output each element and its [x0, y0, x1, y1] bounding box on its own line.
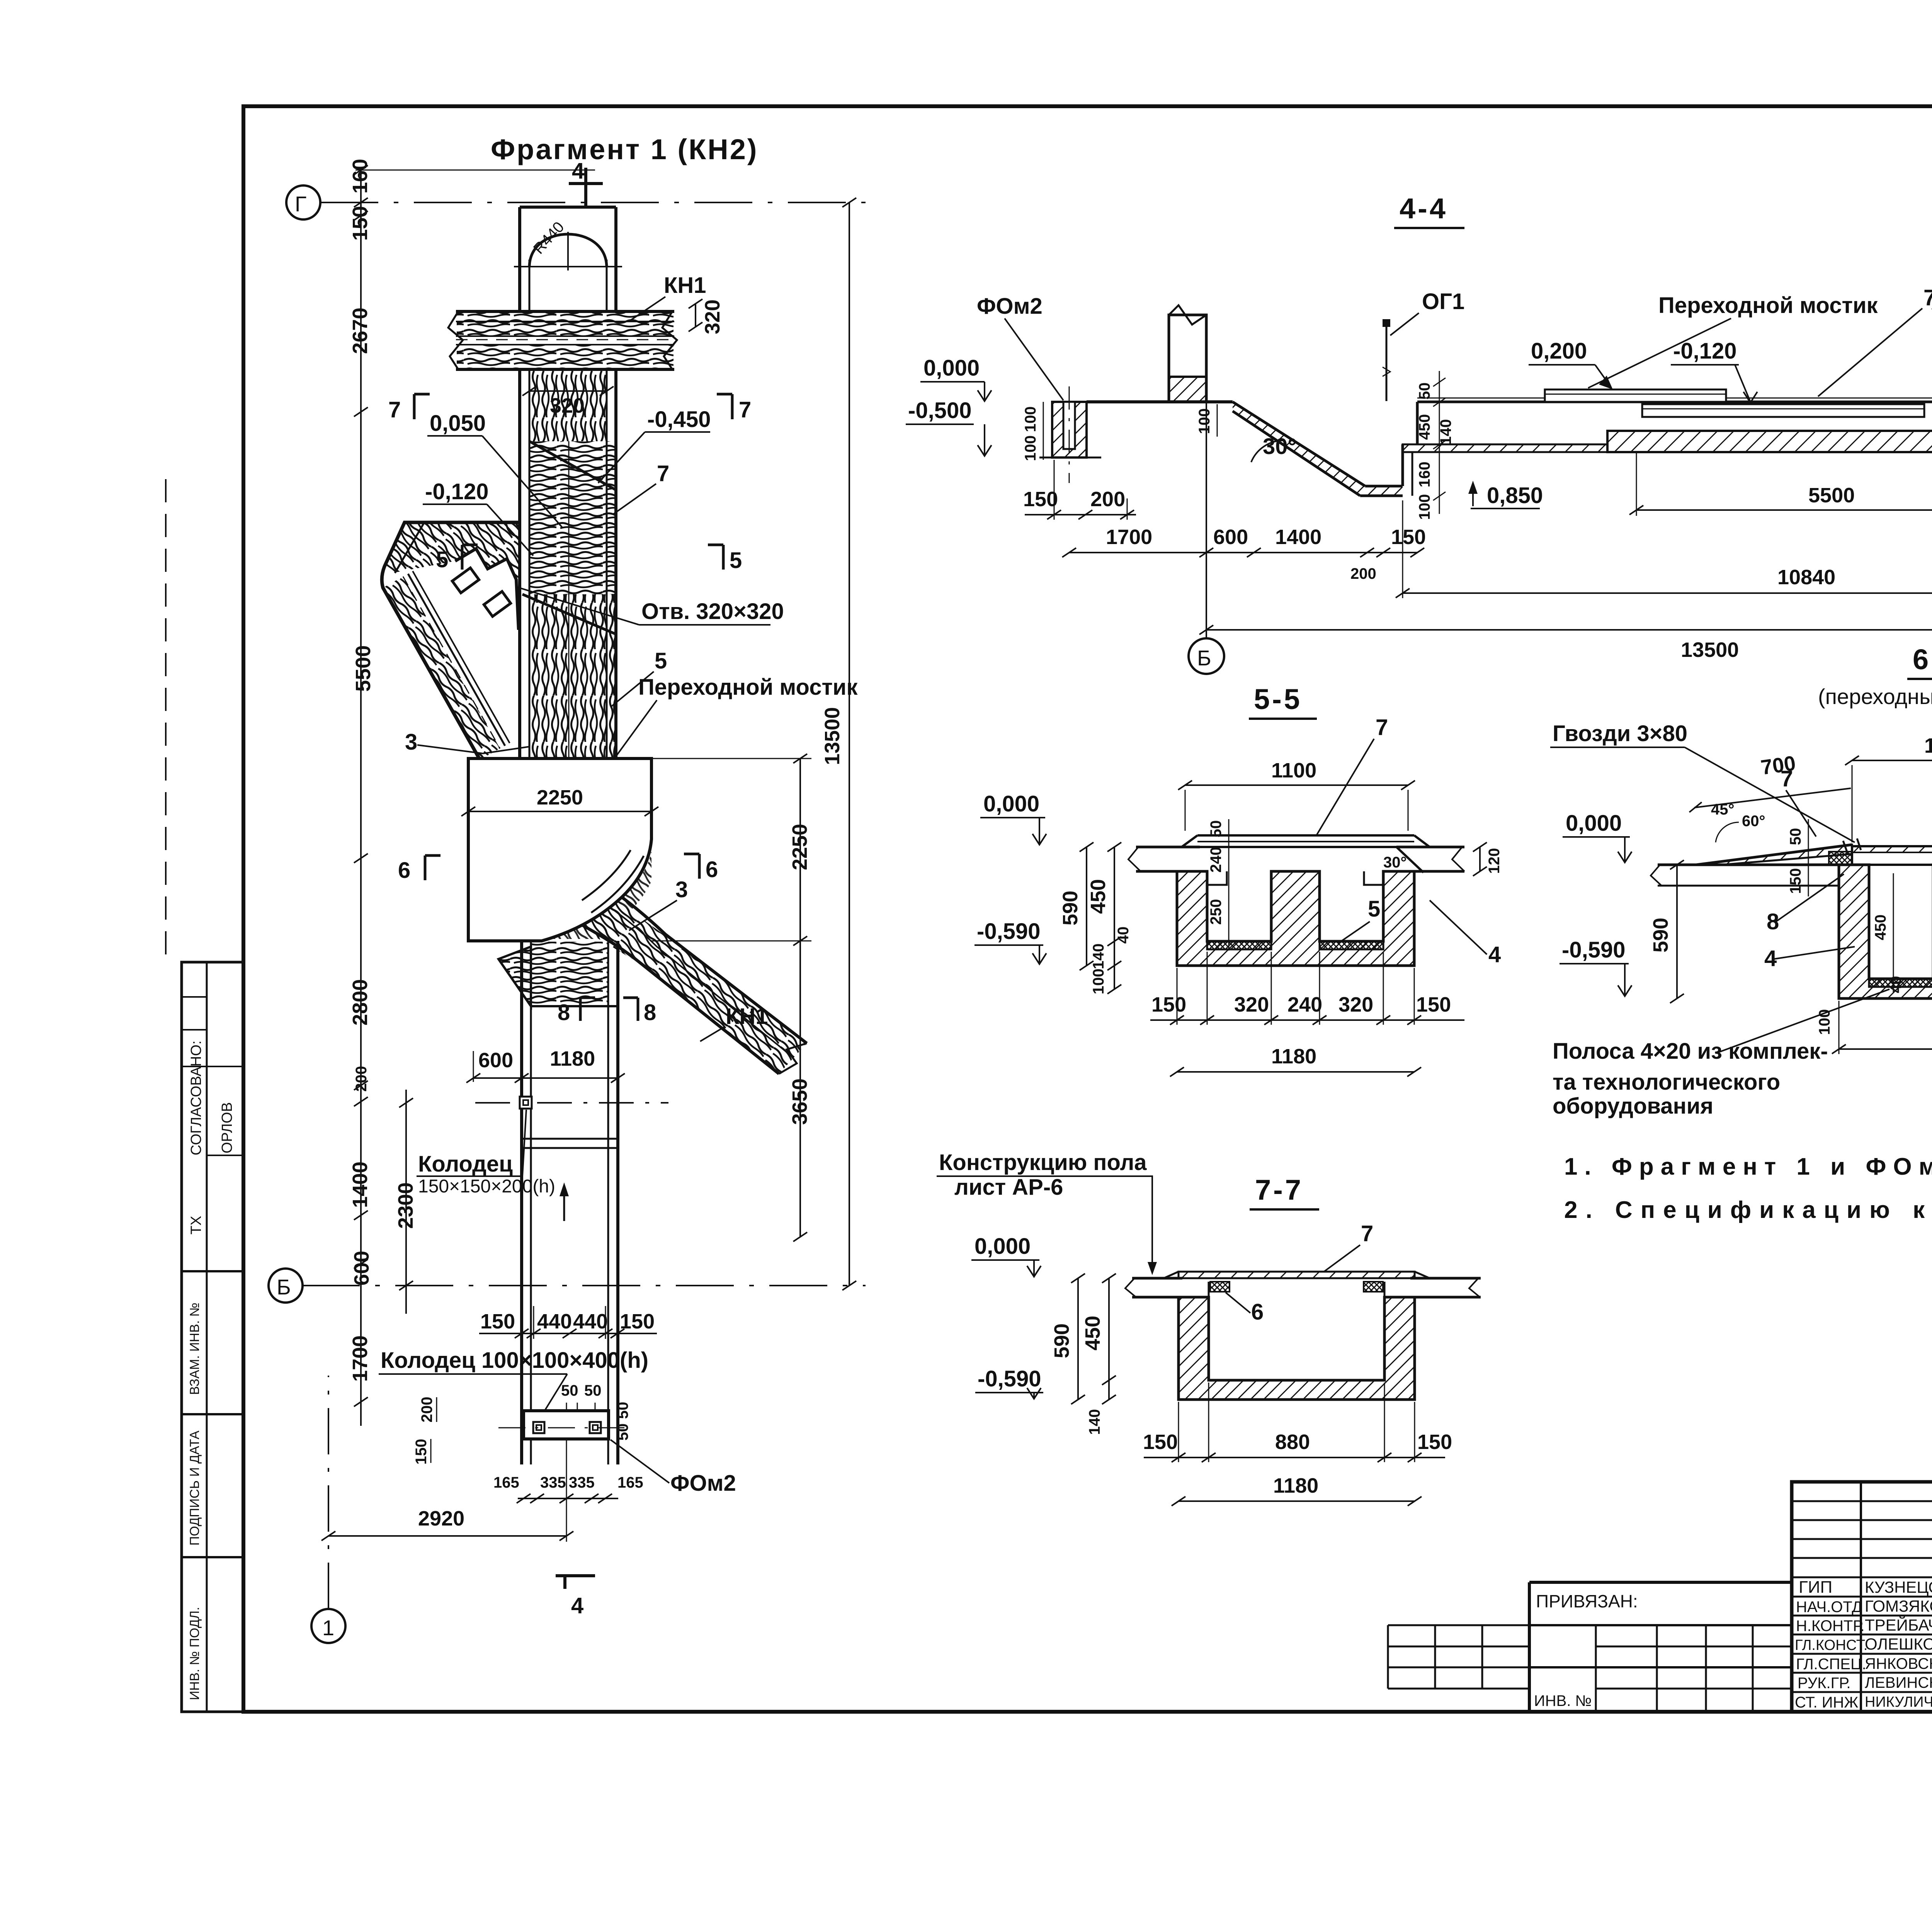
nails marks	[1843, 841, 1848, 854]
hole 1 (otv 320x320)	[452, 568, 479, 593]
svg-text:1400: 1400	[349, 1162, 372, 1208]
svg-text:4-4: 4-4	[1400, 192, 1448, 224]
svg-text:4: 4	[572, 158, 584, 184]
svg-text:440: 440	[573, 1310, 608, 1333]
svg-text:Фрагмент 1 (КН2): Фрагмент 1 (КН2)	[491, 133, 759, 165]
svg-text:600: 600	[1213, 526, 1248, 549]
dim row 1700/600/1400/200/150 + 150/160	[1069, 552, 1417, 553]
left ramp	[1696, 845, 1852, 865]
drawing frame	[243, 106, 1932, 1712]
svg-text:СТ. ИНЖ.: СТ. ИНЖ.	[1795, 1694, 1862, 1711]
dim 2250 inside plate	[468, 811, 651, 812]
svg-text:150: 150	[349, 206, 372, 241]
kolodec axis line and box	[475, 1102, 668, 1104]
svg-text:ИНВ. № ПОДЛ.: ИНВ. № ПОДЛ.	[187, 1607, 202, 1700]
svg-text:ГЛ.КОНСТ.: ГЛ.КОНСТ.	[1795, 1637, 1867, 1653]
svg-text:0,200: 0,200	[1531, 338, 1587, 364]
svg-text:7: 7	[1361, 1221, 1373, 1246]
svg-text:7: 7	[388, 397, 401, 422]
svg-text:150: 150	[1151, 993, 1186, 1016]
svg-text:150: 150	[1787, 868, 1804, 894]
svg-text:ОРЛОВ: ОРЛОВ	[219, 1102, 235, 1153]
svg-text:250: 250	[1207, 899, 1225, 925]
svg-text:6: 6	[1251, 1299, 1264, 1325]
svg-text:1180: 1180	[1271, 1045, 1316, 1068]
svg-text:ЛЕВИНСКАЯ: ЛЕВИНСКАЯ	[1865, 1674, 1932, 1691]
svg-text:335: 335	[540, 1474, 566, 1491]
diagonal channel upper band	[384, 522, 520, 580]
floor slab right	[1396, 846, 1464, 849]
svg-text:1: 1	[322, 1616, 334, 1640]
inner dims 50/240/250	[1228, 819, 1230, 951]
svg-text:100: 100	[1090, 969, 1107, 995]
axis 1 line	[328, 1376, 329, 1609]
svg-text:2670: 2670	[349, 308, 372, 354]
concrete U	[1179, 1297, 1415, 1400]
dim 320 right of KH1	[695, 304, 696, 327]
svg-text:7: 7	[1781, 766, 1793, 791]
svg-text:165: 165	[493, 1474, 519, 1491]
svg-text:0,050: 0,050	[430, 411, 486, 436]
dim 150 440 440 150 under B axis	[479, 1333, 657, 1334]
inner 450/40 dims	[1893, 873, 1894, 993]
axis Б line	[302, 1285, 866, 1286]
FOm2 block	[524, 1411, 609, 1439]
svg-text:50: 50	[614, 1402, 631, 1419]
svg-text:5: 5	[436, 547, 448, 572]
svg-text:450: 450	[1872, 915, 1889, 940]
svg-text:ФОм2: ФОм2	[670, 1471, 736, 1496]
svg-text:ОГ1: ОГ1	[1422, 289, 1464, 314]
axis Г line	[320, 202, 866, 203]
svg-text:ГОМЗЯКОВ: ГОМЗЯКОВ	[1865, 1597, 1932, 1615]
left columns grid	[1860, 1482, 1862, 1712]
svg-text:13500: 13500	[821, 707, 844, 765]
svg-text:5: 5	[655, 648, 667, 673]
svg-text:НИКУЛИЧЕВА: НИКУЛИЧЕВА	[1865, 1694, 1932, 1710]
svg-text:160: 160	[349, 159, 372, 194]
svg-text:2920: 2920	[418, 1507, 464, 1530]
svg-text:ИНВ. №: ИНВ. №	[1534, 1692, 1592, 1709]
svg-text:150: 150	[1143, 1430, 1178, 1454]
section cut 4 bottom	[556, 1574, 595, 1577]
svg-text:5: 5	[1368, 896, 1380, 922]
section mark 6 right	[698, 854, 701, 879]
svg-text:-0,120: -0,120	[425, 479, 488, 504]
hole 2	[484, 592, 510, 617]
svg-text:40: 40	[1115, 927, 1132, 944]
dim 50/150 inner left	[1808, 819, 1809, 896]
svg-text:ЯНКОВСКИЙ: ЯНКОВСКИЙ	[1865, 1655, 1932, 1672]
svg-text:8: 8	[1767, 909, 1779, 934]
svg-text:2250: 2250	[537, 786, 583, 809]
svg-text:200: 200	[1090, 488, 1125, 511]
small 100 dims near dip start	[1217, 404, 1218, 437]
svg-text:320: 320	[1234, 993, 1269, 1016]
svg-text:ВЗАМ. ИНВ. №: ВЗАМ. ИНВ. №	[187, 1303, 202, 1395]
svg-text:8: 8	[558, 1000, 570, 1025]
FOm2 foundation cross-section	[1052, 402, 1087, 457]
svg-text:100: 100	[1416, 494, 1433, 520]
svg-text:0,000: 0,000	[983, 791, 1039, 816]
axis Г circle	[286, 185, 320, 219]
floor line right with planks	[1417, 401, 1932, 403]
svg-text:590: 590	[1059, 891, 1082, 925]
svg-text:Переходной мостик: Переходной мостик	[638, 675, 858, 700]
bottom chain 165 335 335 165	[518, 1498, 618, 1499]
svg-text:320: 320	[701, 299, 724, 334]
svg-text:1180: 1180	[1273, 1474, 1318, 1497]
right chain 2250/3650	[799, 759, 801, 1237]
svg-text:30°: 30°	[1383, 854, 1407, 871]
svg-text:140: 140	[1090, 944, 1107, 969]
svg-text:6: 6	[706, 857, 718, 882]
stepped cut line near holes	[455, 549, 519, 630]
section mark 5 right	[722, 545, 725, 570]
svg-text:30°: 30°	[1263, 434, 1297, 459]
diag outer contour	[382, 522, 520, 760]
bridge plate 2250	[468, 759, 651, 941]
svg-text:240: 240	[1207, 847, 1225, 873]
cover plank	[1197, 834, 1414, 837]
svg-text:2300: 2300	[394, 1182, 417, 1229]
svg-text:100: 100	[1022, 406, 1039, 432]
svg-text:7-7: 7-7	[1255, 1174, 1303, 1206]
привязан table	[1529, 1582, 1792, 1712]
main channel strip top rectangle	[520, 206, 616, 209]
svg-text:ФОм2: ФОм2	[977, 294, 1043, 319]
svg-text:450: 450	[1081, 1316, 1104, 1350]
svg-text:320: 320	[1338, 993, 1373, 1016]
svg-text:6: 6	[398, 858, 410, 883]
svg-text:150×150×200(h): 150×150×200(h)	[418, 1176, 555, 1197]
svg-text:45°: 45°	[1711, 801, 1735, 818]
svg-text:-0,590: -0,590	[978, 1366, 1041, 1391]
svg-text:600: 600	[478, 1049, 513, 1072]
cover plank	[1179, 1272, 1415, 1278]
notes	[1564, 1153, 1932, 1223]
svg-text:-0,120: -0,120	[1673, 338, 1736, 364]
svg-text:165: 165	[617, 1474, 643, 1491]
svg-text:1. Фрагмент 1 и ФОм2 замаркиро: 1. Фрагмент 1 и ФОм2 замаркированы на ли…	[1564, 1153, 1932, 1180]
30 deg wedge right	[1396, 847, 1423, 872]
svg-text:13500: 13500	[1681, 638, 1739, 662]
svg-text:335: 335	[569, 1474, 595, 1491]
svg-text:140: 140	[1086, 1409, 1103, 1435]
svg-text:Гвозди 3×80: Гвозди 3×80	[1553, 721, 1687, 746]
floor line left	[1087, 400, 1233, 403]
center plank	[1852, 846, 1932, 865]
wood block below plate	[531, 942, 608, 1006]
svg-text:КН1: КН1	[664, 273, 706, 298]
section mark 7 right	[731, 394, 734, 419]
left dim chain 1	[360, 170, 362, 1426]
svg-text:1100: 1100	[1271, 759, 1316, 782]
svg-text:РУК.ГР.: РУК.ГР.	[1798, 1675, 1851, 1692]
dim 2920	[328, 1535, 566, 1537]
right chain 13500	[849, 202, 850, 1286]
svg-text:6-6: 6-6	[1913, 643, 1932, 675]
svg-text:Б: Б	[277, 1275, 291, 1299]
axis B wall	[1169, 315, 1206, 402]
lines across strip	[522, 1138, 618, 1140]
svg-text:Отв. 320×320: Отв. 320×320	[641, 599, 784, 624]
120 dim right	[1479, 847, 1481, 871]
svg-text:1000: 1000	[1924, 734, 1932, 757]
raised plank 0,200	[1545, 389, 1726, 402]
svg-text:100: 100	[1022, 435, 1039, 461]
svg-text:ОЛЕШКО: ОЛЕШКО	[1865, 1635, 1932, 1653]
svg-text:3: 3	[675, 877, 688, 902]
svg-text:450: 450	[1087, 879, 1110, 914]
svg-text:590: 590	[1649, 918, 1672, 952]
svg-text:600: 600	[350, 1251, 373, 1286]
svg-text:1400: 1400	[1275, 526, 1321, 549]
svg-text:150: 150	[413, 1439, 430, 1465]
svg-text:Н.КОНТР.: Н.КОНТР.	[1796, 1617, 1865, 1634]
svg-text:3: 3	[405, 730, 417, 755]
svg-text:КН1: КН1	[726, 1004, 768, 1029]
svg-text:10840: 10840	[1777, 566, 1835, 589]
svg-text:7: 7	[739, 397, 751, 422]
svg-text:150: 150	[480, 1310, 515, 1333]
dims 600 1180	[473, 1077, 618, 1079]
svg-text:ГИП: ГИП	[1799, 1578, 1832, 1597]
left outer stamp strip	[166, 479, 243, 1712]
arch R440	[529, 234, 607, 267]
svg-text:0,850: 0,850	[1487, 483, 1543, 508]
svg-text:50: 50	[1207, 820, 1225, 838]
svg-text:-0,590: -0,590	[977, 919, 1040, 944]
svg-text:Переходной мостик: Переходной мостик	[1658, 293, 1878, 318]
dim row 10840	[1403, 592, 1932, 594]
title block	[1792, 1482, 1932, 1712]
left dims 590/450/140	[1086, 847, 1087, 966]
svg-text:7: 7	[1376, 715, 1388, 740]
svg-text:200: 200	[1350, 565, 1376, 582]
dim row 5500/3000	[1636, 509, 1932, 511]
floor slab right	[1410, 1277, 1481, 1280]
svg-text:2250: 2250	[788, 824, 811, 870]
section mark 8 right	[637, 998, 639, 1021]
svg-text:ТРЕЙБАЧ: ТРЕЙБАЧ	[1865, 1616, 1932, 1634]
svg-text:-0,450: -0,450	[647, 407, 711, 432]
svg-text:лист АР-6: лист АР-6	[954, 1175, 1063, 1200]
svg-text:1180: 1180	[550, 1047, 595, 1070]
ground line	[1658, 864, 1839, 866]
lining plates in voids	[1207, 941, 1271, 949]
dim row 13500	[1206, 629, 1932, 631]
diag inner double wall lines	[395, 522, 424, 573]
svg-text:Б: Б	[1197, 646, 1211, 670]
svg-text:590: 590	[1050, 1323, 1073, 1358]
strip below plate	[520, 941, 523, 1464]
svg-text:ПРИВЯЗАН:: ПРИВЯЗАН:	[1536, 1591, 1638, 1611]
axis 1 circle	[311, 1609, 345, 1643]
svg-text:ПОДПИСЬ И ДАТА: ПОДПИСЬ И ДАТА	[187, 1430, 202, 1546]
axis verticals + circles	[1206, 402, 1207, 638]
bottom dim chain	[1150, 1019, 1464, 1021]
svg-text:150: 150	[1391, 526, 1426, 549]
svg-text:Колодец: Колодец	[418, 1151, 513, 1177]
svg-text:60°: 60°	[1742, 813, 1765, 830]
svg-text:8: 8	[644, 1000, 656, 1025]
left dims 590/450/140	[1077, 1278, 1079, 1400]
svg-text:-0,500: -0,500	[908, 398, 971, 423]
svg-text:160: 160	[1416, 462, 1433, 488]
svg-text:150: 150	[1416, 993, 1451, 1016]
dim 1180	[1177, 1071, 1414, 1073]
svg-text:1700: 1700	[349, 1335, 372, 1382]
svg-text:Колодец 100×100×400(h): Колодец 100×100×400(h)	[381, 1348, 648, 1373]
channel dip	[1233, 402, 1403, 496]
svg-text:(переходный мостик): (переходный мостик)	[1818, 684, 1932, 709]
svg-text:50: 50	[561, 1382, 578, 1399]
svg-text:Г: Г	[295, 192, 306, 216]
svg-text:5500: 5500	[1808, 484, 1855, 507]
svg-text:150: 150	[1023, 488, 1058, 511]
svg-text:ТХ: ТХ	[188, 1216, 204, 1235]
svg-text:7: 7	[1923, 285, 1932, 310]
svg-text:оборудования: оборудования	[1553, 1094, 1713, 1119]
under-slab thick part	[1607, 431, 1932, 452]
cross-hatch pads	[1829, 852, 1852, 865]
pads	[1210, 1282, 1230, 1292]
svg-text:5: 5	[730, 548, 742, 573]
svg-text:150: 150	[620, 1310, 655, 1333]
svg-text:Полоса 4×20 из комплек-: Полоса 4×20 из комплек-	[1553, 1039, 1828, 1064]
strip walls mid	[518, 369, 521, 759]
left extension grid	[1388, 1625, 1529, 1689]
svg-text:50: 50	[1416, 383, 1433, 400]
svg-text:140: 140	[1437, 419, 1454, 445]
svg-text:ГЛ.СПЕЦ.: ГЛ.СПЕЦ.	[1796, 1656, 1866, 1673]
svg-text:0,000: 0,000	[1566, 811, 1622, 836]
svg-text:2800: 2800	[349, 979, 372, 1026]
floor slab left	[1132, 1277, 1182, 1280]
svg-text:2. Спецификацию канала КН2 см.: 2. Спецификацию канала КН2 см. на листе …	[1564, 1197, 1932, 1223]
svg-text:5-5: 5-5	[1254, 683, 1302, 715]
small ledges under cover	[1207, 871, 1227, 885]
svg-text:200: 200	[418, 1397, 435, 1423]
svg-text:450: 450	[1416, 414, 1433, 440]
svg-text:та технологического: та технологического	[1553, 1070, 1780, 1095]
svg-text:50: 50	[1787, 828, 1804, 845]
flow arrow	[563, 1187, 565, 1221]
dim 1180	[1179, 1500, 1415, 1502]
svg-text:40: 40	[1888, 976, 1905, 993]
svg-text:5500: 5500	[352, 645, 375, 692]
concrete body	[1839, 865, 1932, 998]
floor slab left	[1136, 846, 1200, 849]
svg-text:120: 120	[1486, 848, 1503, 874]
svg-text:50: 50	[584, 1382, 602, 1399]
svg-text:440: 440	[537, 1310, 572, 1333]
bottom dims 150/880/150	[1144, 1457, 1445, 1458]
concrete U-channel body	[1177, 871, 1414, 966]
svg-text:7: 7	[657, 461, 669, 486]
under-slab thin part	[1403, 444, 1607, 452]
svg-text:150: 150	[1417, 1430, 1452, 1454]
svg-text:3650: 3650	[788, 1078, 811, 1125]
dim 1180	[1839, 1048, 1932, 1050]
axis Б circle	[269, 1269, 303, 1303]
left chain 2 (2300)	[405, 1090, 407, 1314]
KH1 horizontal channel band	[456, 311, 674, 369]
svg-text:50: 50	[614, 1423, 631, 1441]
svg-text:0,000: 0,000	[923, 355, 980, 381]
svg-text:4: 4	[1488, 942, 1501, 967]
svg-text:100: 100	[1196, 408, 1213, 434]
svg-text:КУЗНЕЦОВ: КУЗНЕЦОВ	[1865, 1578, 1932, 1596]
svg-text:1700: 1700	[1106, 526, 1152, 549]
svg-text:НАЧ.ОТД: НАЧ.ОТД	[1796, 1599, 1862, 1616]
svg-text:-0,590: -0,590	[1562, 937, 1625, 963]
lining plates	[1869, 979, 1932, 987]
lower diagonal channel KH1	[553, 854, 807, 1074]
svg-text:0,000: 0,000	[975, 1234, 1031, 1259]
left 590 dim	[1676, 865, 1678, 998]
svg-text:880: 880	[1275, 1430, 1310, 1454]
small vertical dim stack at x3725	[1439, 371, 1440, 514]
svg-text:4: 4	[571, 1593, 583, 1618]
section cut 4 top	[584, 168, 587, 209]
dim 320 below crossing	[529, 390, 607, 392]
sunk plank 1	[1642, 404, 1924, 417]
svg-text:СОГЛАСОВАНО:: СОГЛАСОВАНО:	[188, 1041, 204, 1155]
svg-text:240: 240	[1287, 993, 1322, 1016]
svg-text:Конструкцию пола: Конструкцию пола	[939, 1150, 1147, 1175]
svg-text:200: 200	[353, 1066, 370, 1092]
wood fill inside strip below crossing	[529, 369, 607, 441]
